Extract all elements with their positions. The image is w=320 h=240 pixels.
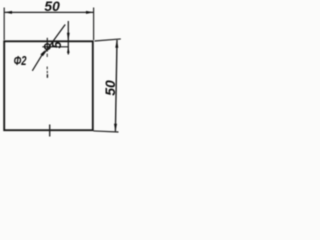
svg-text:5: 5 (50, 40, 64, 48)
svg-text:50: 50 (102, 80, 118, 96)
svg-text:Φ2: Φ2 (14, 54, 27, 68)
svg-text:50: 50 (44, 0, 60, 14)
